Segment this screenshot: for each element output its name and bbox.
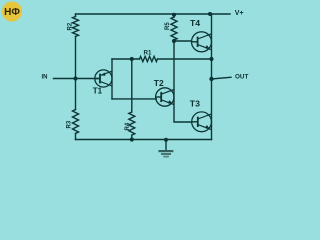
node: IN junction (73, 76, 77, 80)
node: ground junction (164, 138, 168, 142)
transistor T2 (156, 88, 174, 106)
wire R1 left segment (112, 58, 140, 60)
svg-text:IN: IN (42, 74, 48, 80)
node: R1 / T1 collector junction (130, 57, 134, 61)
svg-text:T2: T2 (154, 78, 164, 88)
wire T1 collector-emitter vertical (111, 59, 113, 99)
transistor T4 (192, 32, 212, 52)
wire T4 base (174, 40, 192, 42)
node: T4 collector rail junction (208, 12, 212, 16)
wire R5 bottom / T2 collector / T2 emitter to T3 base (174, 40, 192, 122)
wire left rail upper stub (75, 14, 77, 17)
node: R5 top rail junction (172, 13, 176, 17)
svg-text:R3: R3 (67, 120, 73, 128)
wire ground stub (165, 140, 167, 151)
svg-text:V+: V+ (235, 10, 244, 17)
node: R1 right / OUT rail junction (209, 57, 213, 61)
node: OUT junction (209, 77, 213, 81)
svg-text:НФ: НФ (4, 7, 20, 18)
svg-text:OUT: OUT (235, 74, 248, 81)
logo badge (2, 2, 22, 22)
wire top rail V+ (76, 13, 231, 15)
resistor R5 (171, 17, 177, 40)
wire right rail (211, 14, 213, 140)
wire T1 emitter to T2 base (112, 98, 156, 100)
svg-text:R2: R2 (68, 22, 74, 30)
wire left rail middle (75, 37, 77, 110)
wire OUT lead (212, 77, 232, 79)
wire left rail lower stub (75, 134, 77, 140)
transistor T1 (95, 70, 112, 87)
transistor T3 (192, 112, 212, 132)
svg-text:T4: T4 (190, 18, 200, 28)
node: R4 bottom rail junction (130, 137, 134, 141)
node: T4 base junction (172, 39, 176, 43)
svg-text:R1: R1 (144, 50, 153, 57)
svg-text:T1: T1 (93, 87, 103, 96)
ground (158, 150, 173, 158)
resistor R2 (73, 17, 79, 37)
svg-text:R4: R4 (125, 122, 131, 130)
wire R4 bottom stub (131, 135, 133, 139)
svg-text:R5: R5 (165, 22, 171, 30)
resistor R3 (73, 110, 79, 134)
resistor R1 (140, 56, 158, 61)
wire R1 right segment (158, 58, 212, 60)
wire T1 collector node to R4 (131, 59, 133, 112)
wire IN lead (54, 78, 101, 80)
wire bottom rail (76, 139, 212, 141)
wire top rail to R5 stub (173, 14, 175, 17)
svg-text:T3: T3 (190, 98, 200, 108)
resistor R4 (129, 112, 135, 135)
